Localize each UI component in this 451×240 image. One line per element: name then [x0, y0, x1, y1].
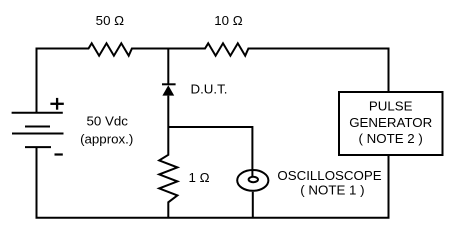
svg-text:10 Ω: 10 Ω	[214, 13, 242, 28]
svg-text:D.U.T.: D.U.T.	[191, 82, 228, 97]
svg-text:50 Ω: 50 Ω	[96, 13, 124, 28]
svg-text:50 Vdc: 50 Vdc	[86, 113, 128, 128]
svg-text:( NOTE 2 ): ( NOTE 2 )	[359, 131, 423, 146]
svg-text:GENERATOR: GENERATOR	[349, 115, 432, 130]
svg-text:(approx.): (approx.)	[80, 132, 133, 147]
svg-text:( NOTE 1 ): ( NOTE 1 )	[300, 183, 364, 198]
svg-text:OSCILLOSCOPE: OSCILLOSCOPE	[277, 168, 381, 183]
svg-text:PULSE: PULSE	[369, 99, 413, 114]
svg-text:1 Ω: 1 Ω	[188, 170, 209, 185]
